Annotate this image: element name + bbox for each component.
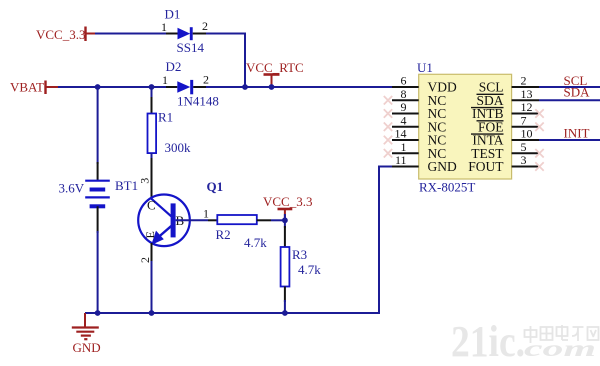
- U1 left pin 6 (VDD): [392, 86, 419, 88]
- wire SDA net: [539, 99, 600, 101]
- overbar on INTB: [471, 107, 504, 109]
- junction node emitter/ground: [149, 310, 155, 316]
- wire D2 cathode to U1 VDD: [206, 86, 392, 88]
- resistor R1: [148, 114, 157, 154]
- resistor R2: [217, 215, 256, 224]
- U1 right pin 12 (INTB): [512, 113, 539, 115]
- power port VCC_3.3 (pull-up): [263, 194, 312, 218]
- svg-text:14: 14: [395, 127, 407, 141]
- wire battery top: [97, 87, 99, 164]
- no-connect X on pin 9: [384, 109, 392, 117]
- svg-text:U1: U1: [417, 60, 433, 75]
- svg-text:3: 3: [521, 153, 527, 167]
- no-connect X on pin 8: [384, 96, 392, 104]
- pin lead BT1 negative: [97, 206, 99, 233]
- junction node R3/ground: [282, 310, 288, 316]
- svg-text:8: 8: [401, 87, 407, 101]
- no-connect X on pin 12: [535, 109, 543, 117]
- wire R3 bottom to ground rail: [284, 300, 286, 313]
- ground symbol GND: [72, 313, 99, 339]
- svg-text:6: 6: [401, 74, 407, 88]
- watermark 21ic logo (decorative): [451, 317, 599, 366]
- no-connect X on pin 3: [535, 162, 543, 170]
- pin lead BT1 positive: [97, 162, 99, 180]
- wire D1 cathode to VCC_RTC corner: [206, 33, 245, 35]
- svg-text:C: C: [147, 198, 156, 213]
- wire ground rail: [85, 312, 379, 314]
- U1 right pin 2 (SCL): [512, 86, 539, 88]
- wire VCC_3.3 to D1 anode: [95, 33, 166, 35]
- pin lead Q1 emitter (pin 2): [151, 243, 153, 263]
- svg-text:SS14: SS14: [177, 40, 205, 55]
- svg-text:GND: GND: [428, 159, 457, 174]
- no-connect X on pin 14: [384, 136, 392, 144]
- svg-text:R2: R2: [216, 227, 231, 242]
- svg-text:12: 12: [521, 100, 533, 114]
- U1 left pin 9 (NC): [392, 113, 419, 115]
- svg-text:VCC_3.3: VCC_3.3: [263, 194, 312, 209]
- svg-text:11: 11: [395, 153, 407, 167]
- svg-text:1N4148: 1N4148: [177, 94, 219, 109]
- svg-text:VCC_3.3: VCC_3.3: [36, 27, 85, 42]
- svg-text:Q1: Q1: [207, 179, 224, 194]
- svg-text:2: 2: [521, 74, 527, 88]
- overbar on SDA: [477, 93, 504, 95]
- no-connect X on pin 1: [384, 149, 392, 157]
- pin lead R1 pin 1: [151, 97, 153, 114]
- svg-text:2: 2: [203, 73, 209, 87]
- diode D2 1N4148: [166, 80, 206, 94]
- svg-text:4.7k: 4.7k: [298, 262, 321, 277]
- no-connect X on pin 5: [535, 149, 543, 157]
- svg-text:FOUT: FOUT: [468, 159, 504, 174]
- junction node VCC_RTC drop: [242, 84, 248, 90]
- pin lead R2 pin 2: [257, 219, 271, 221]
- svg-text:VCC_RTC: VCC_RTC: [246, 60, 304, 75]
- svg-text:D2: D2: [166, 59, 182, 74]
- U1 right pin 7 (FOE): [512, 126, 539, 128]
- wire U1 GND riser: [378, 167, 380, 315]
- wire INIT net: [539, 139, 600, 141]
- svg-text:3.6V: 3.6V: [59, 181, 85, 196]
- U1 left pin 1 (NC): [392, 152, 419, 154]
- svg-text:BT1: BT1: [115, 178, 138, 193]
- IC U1 RX-8025T body: [419, 74, 512, 179]
- svg-text:13: 13: [521, 87, 533, 101]
- U1 left pin 14 (NC): [392, 139, 419, 141]
- resistor R3: [281, 247, 290, 287]
- pin lead R3 pin 2: [284, 287, 286, 303]
- svg-text:com: com: [524, 336, 596, 361]
- svg-text:E: E: [143, 231, 157, 238]
- no-connect X on pin 4: [384, 123, 392, 131]
- U1 right pin 13 (SDA): [512, 99, 539, 101]
- U1 left pin 11 (GND): [392, 166, 419, 168]
- svg-text:9: 9: [401, 100, 407, 114]
- no-connect X on pin 7: [535, 123, 543, 131]
- svg-text:R1: R1: [158, 110, 173, 125]
- svg-text:300k: 300k: [165, 140, 192, 155]
- pin lead R2 pin 1: [208, 219, 217, 221]
- svg-text:INIT: INIT: [564, 126, 590, 141]
- transistor Q1: [138, 195, 190, 247]
- wire Q1 base to R2: [176, 219, 208, 221]
- junction node on VBAT rail at battery: [95, 84, 101, 90]
- junction node on VBAT rail at R1: [149, 84, 155, 90]
- power port VBAT: [10, 80, 58, 95]
- U1 left pin 8 (NC): [392, 99, 419, 101]
- wire vertical drop to VCC_RTC node: [244, 33, 246, 88]
- svg-text:3: 3: [137, 178, 151, 184]
- diode D1 SS14: [166, 27, 206, 40]
- svg-text:VBAT: VBAT: [10, 80, 44, 95]
- svg-text:4.7k: 4.7k: [244, 235, 267, 250]
- overbar on INTA: [471, 133, 504, 135]
- svg-text:SDA: SDA: [564, 85, 591, 100]
- junction node R2/R3/VCC: [282, 217, 288, 223]
- U1 left pin 4 (NC): [392, 126, 419, 128]
- wire U1 GND horizontal: [378, 166, 392, 168]
- svg-text:R3: R3: [292, 247, 307, 262]
- svg-text:RX-8025T: RX-8025T: [419, 180, 475, 195]
- wire VCC node to R3 top: [284, 214, 286, 228]
- junction node battery/ground: [95, 310, 101, 316]
- U1 right pin 3 (FOUT): [512, 166, 539, 168]
- svg-text:2: 2: [202, 19, 208, 33]
- wire R2 to VCC node: [271, 219, 285, 221]
- wire battery bottom to ground rail: [97, 231, 99, 313]
- svg-text:5: 5: [521, 140, 527, 154]
- power port VCC_3.3 (top left): [36, 27, 95, 43]
- svg-text:21ic.: 21ic.: [451, 317, 525, 361]
- svg-text:1: 1: [203, 207, 209, 221]
- wire Q1 emitter to ground rail: [151, 261, 153, 313]
- wire SCL net: [539, 86, 600, 88]
- wire R1 bottom to Q1 collector: [151, 153, 153, 160]
- svg-text:4: 4: [401, 113, 407, 127]
- svg-text:GND: GND: [73, 340, 101, 355]
- U1 right pin 5 (TEST): [512, 152, 539, 154]
- svg-text:1: 1: [161, 20, 167, 34]
- junction node VCC_RTC stem: [269, 84, 275, 90]
- wire VBAT rail to D2 anode: [58, 86, 166, 88]
- svg-text:1: 1: [401, 140, 407, 154]
- wire R1 top: [151, 87, 153, 99]
- battery BT1: [85, 181, 110, 207]
- svg-text:7: 7: [521, 113, 527, 127]
- svg-text:1: 1: [162, 73, 168, 87]
- svg-text:2: 2: [138, 257, 152, 263]
- svg-text:10: 10: [521, 127, 533, 141]
- pin lead Q1 collector (pin 3): [151, 158, 153, 200]
- pin lead R3 pin 1: [284, 226, 286, 247]
- power port VCC_RTC: [246, 60, 304, 86]
- U1 right pin 10 (INTA): [512, 139, 539, 141]
- overbar on FOE: [477, 120, 504, 122]
